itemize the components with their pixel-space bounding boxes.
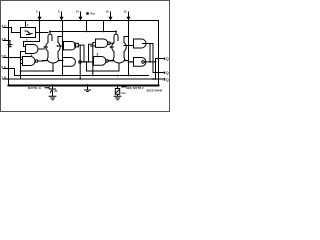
svg-text:2: 2 (31, 53, 33, 57)
svg-text:6 S: 6 S (2, 65, 6, 69)
svg-text:1 R: 1 R (2, 76, 6, 80)
svg-text:3 A: 3 A (2, 24, 6, 28)
svg-text:5 D: 5 D (2, 54, 6, 58)
svg-text:NOTE A: NOTE A (28, 86, 42, 90)
svg-text:3: 3 (97, 53, 99, 57)
svg-text:1 Q: 1 Q (164, 57, 170, 61)
svg-text:92CS-30445: 92CS-30445 (147, 88, 163, 92)
svg-text:SEE NOTE 2: SEE NOTE 2 (126, 86, 144, 90)
svg-text:4 B: 4 B (2, 37, 6, 41)
svg-text:2 Q: 2 Q (164, 71, 170, 75)
svg-text:1: 1 (26, 39, 28, 43)
svg-text:2 Q: 2 Q (164, 78, 170, 82)
